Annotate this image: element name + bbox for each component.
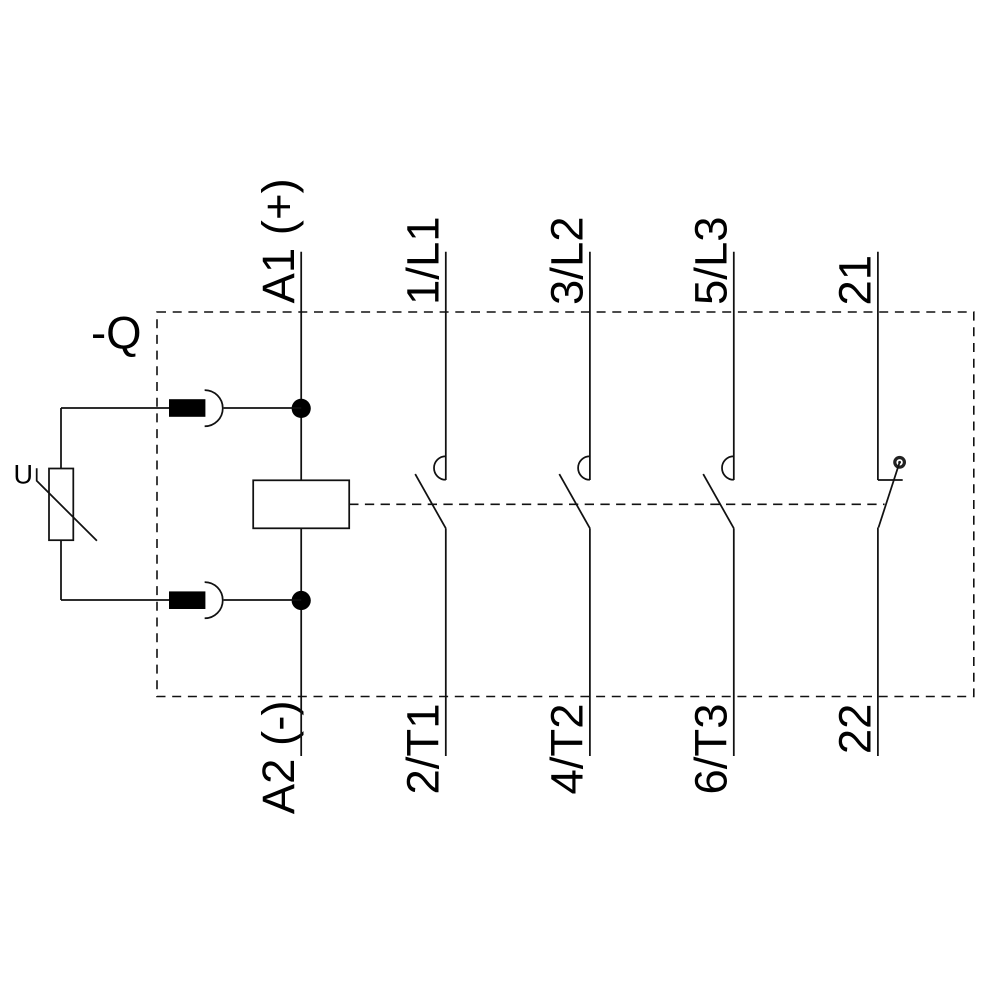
svg-text:4/T2: 4/T2 [542, 704, 593, 795]
coil K (operating coil) [253, 480, 349, 528]
main contact pole 1 moving blade [415, 474, 446, 528]
node junction bottom on A2 line [292, 591, 311, 610]
main contact pole 3 arc [722, 456, 734, 480]
connector plug top (male pin) [169, 399, 205, 417]
svg-text:A1 (+): A1 (+) [253, 178, 304, 303]
svg-text:1/L1: 1/L1 [398, 216, 449, 305]
aux NC moving blade [879, 462, 900, 527]
svg-text:-Q: -Q [91, 308, 142, 359]
aux mirror-contact circle [895, 458, 905, 468]
terminal label 1/L1 [398, 216, 449, 305]
svg-text:5/L3: 5/L3 [686, 216, 737, 305]
coil terminal label A1 (+) [253, 178, 304, 303]
terminal label 4/T2 [542, 704, 593, 795]
main contact pole 2 arc [578, 456, 590, 480]
svg-text:A2 (-): A2 (-) [253, 701, 304, 815]
varistor RV body [49, 469, 73, 541]
main contact pole 1 fixed top [445, 252, 447, 480]
aux NC contact seat tick [878, 479, 903, 481]
connector plug bottom (male pin) [169, 591, 205, 609]
wire top arc to junction [224, 407, 302, 409]
main contact pole 3 moving blade [703, 474, 734, 528]
terminal label 22 [830, 704, 881, 755]
terminal label 21 [830, 255, 881, 306]
main contact pole 1 arc [434, 456, 446, 480]
svg-text:22: 22 [830, 704, 881, 755]
main contact pole 1 bottom stub [445, 528, 447, 756]
main contact pole 3 fixed top [733, 252, 735, 480]
main contact pole 2 fixed top [589, 252, 591, 480]
main contact pole 3 bottom stub [733, 528, 735, 756]
main contact pole 2 bottom stub [589, 528, 591, 756]
wire varistor left top vertical [60, 408, 62, 469]
terminal label 5/L3 [686, 216, 737, 305]
aux mirror-contact center dot [898, 461, 901, 464]
terminal label 3/L2 [542, 216, 593, 305]
svg-text:3/L2: 3/L2 [542, 216, 593, 305]
contactor outline dashed box -Q [157, 312, 974, 697]
terminal label 6/T3 [686, 704, 737, 795]
terminal label 2/T1 [398, 704, 449, 795]
connector socket bottom arc [205, 582, 223, 618]
connector socket top arc [205, 390, 223, 426]
coil terminal label A2 (-) [253, 701, 304, 815]
wire varistor left bottom vertical [60, 540, 62, 600]
svg-text:6/T3: 6/T3 [686, 704, 737, 795]
main contact pole 2 moving blade [559, 474, 590, 528]
svg-text:2/T1: 2/T1 [398, 704, 449, 795]
aux contact 22 bottom stub [877, 528, 879, 757]
wire varistor top horizontal [61, 407, 169, 409]
wire A2 bottom stub [300, 528, 302, 756]
svg-text:U: U [14, 460, 34, 490]
node junction top on A1 line [292, 399, 311, 418]
wire bottom arc to junction [224, 599, 302, 601]
svg-text:21: 21 [830, 255, 881, 306]
mechanical link dashed line [349, 503, 884, 505]
varistor diagonal with tick [37, 468, 97, 541]
wire A1 top stub [300, 252, 302, 480]
aux NC contact 21 fixed top [877, 252, 879, 480]
wire varistor bottom horizontal [61, 599, 169, 601]
